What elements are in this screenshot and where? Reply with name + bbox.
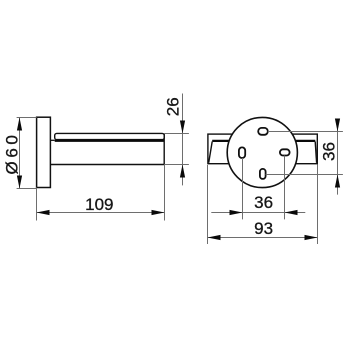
dimension 109	[37, 165, 165, 221]
dimension 26	[164, 94, 189, 186]
leader bottom slot	[266, 174, 343, 176]
mounting slot top	[258, 128, 268, 135]
wall plate side view	[37, 117, 51, 187]
dimension D60	[3, 118, 37, 189]
svg-text:109: 109	[85, 195, 113, 214]
mounting slot left	[239, 147, 245, 158]
leader top slot	[268, 131, 343, 133]
svg-text:93: 93	[254, 219, 273, 238]
arm top plate side view	[55, 133, 165, 140]
dimension 93	[208, 165, 318, 245]
mounting slot bottom	[260, 169, 266, 179]
svg-text:36: 36	[254, 193, 273, 212]
leader left slot	[242, 158, 244, 219]
bar front view	[208, 134, 317, 164]
svg-text:Ø60: Ø60	[3, 132, 22, 175]
svg-text:26: 26	[164, 97, 183, 116]
mounting slot right	[280, 149, 290, 155]
wall plate circle front view	[227, 117, 297, 187]
svg-text:36: 36	[320, 142, 339, 161]
leader right slot	[284, 156, 286, 220]
dimension 36 vertical	[320, 119, 341, 195]
dimension 36 horizontal	[211, 193, 305, 215]
arm body side view	[50, 133, 164, 164]
